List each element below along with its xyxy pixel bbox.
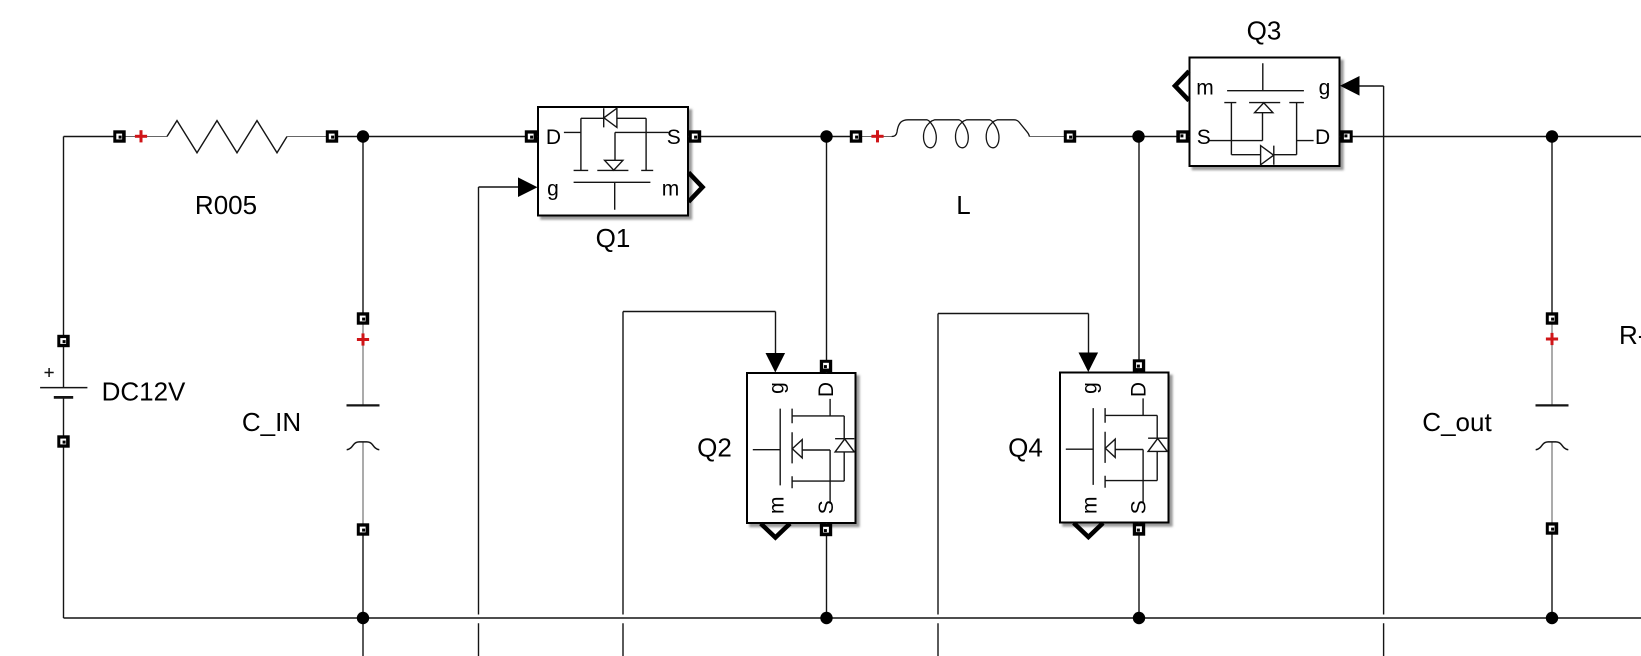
svg-text:D: D [546, 126, 561, 149]
svg-text:D: D [815, 382, 838, 397]
svg-text:g: g [1078, 382, 1101, 394]
svg-text:m: m [1196, 76, 1214, 99]
svg-text:S: S [1128, 500, 1151, 514]
svg-text:Q4: Q4 [1008, 433, 1043, 463]
svg-text:m: m [765, 497, 788, 515]
svg-text:D: D [1315, 126, 1330, 149]
svg-text:R-load: R-load [1619, 320, 1641, 350]
svg-text:Q3: Q3 [1247, 16, 1282, 46]
svg-text:S: S [1197, 126, 1211, 149]
svg-text:D: D [1128, 382, 1151, 397]
svg-text:L: L [956, 190, 970, 220]
svg-text:Q2: Q2 [697, 433, 732, 463]
svg-text:C_IN: C_IN [242, 407, 301, 437]
svg-text:S: S [667, 126, 681, 149]
svg-text:g: g [1319, 76, 1331, 99]
svg-text:Q1: Q1 [596, 223, 631, 253]
svg-text:g: g [547, 177, 559, 200]
svg-text:m: m [1078, 497, 1101, 515]
svg-text:m: m [662, 177, 680, 200]
svg-text:g: g [765, 382, 788, 394]
svg-text:DC12V: DC12V [102, 377, 186, 407]
svg-text:S: S [815, 500, 838, 514]
svg-text:C_out: C_out [1422, 407, 1492, 437]
svg-text:R005: R005 [195, 190, 257, 220]
